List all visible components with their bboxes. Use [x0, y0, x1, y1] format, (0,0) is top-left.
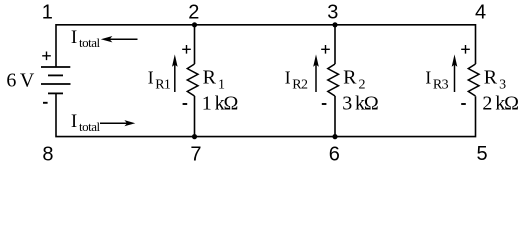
svg-text:8: 8 — [42, 143, 53, 165]
svg-text:3: 3 — [327, 2, 338, 24]
svg-text:I: I — [148, 68, 154, 88]
svg-text:7: 7 — [190, 144, 201, 166]
svg-text:1: 1 — [42, 2, 53, 24]
svg-text:I: I — [425, 68, 431, 88]
svg-text:I: I — [285, 68, 291, 88]
svg-text:1 kΩ: 1 kΩ — [202, 92, 238, 114]
svg-text:R: R — [484, 67, 498, 89]
svg-text:2: 2 — [188, 2, 199, 24]
svg-text:1: 1 — [218, 77, 225, 92]
svg-text:4: 4 — [475, 2, 486, 24]
svg-text:5: 5 — [477, 143, 488, 165]
svg-text:R2: R2 — [292, 77, 308, 92]
svg-text:R: R — [203, 67, 217, 89]
svg-text:I: I — [71, 27, 77, 48]
svg-text:R1: R1 — [155, 77, 171, 92]
svg-text:total: total — [79, 119, 100, 134]
svg-text:6: 6 — [329, 143, 340, 165]
svg-text:6 V: 6 V — [6, 69, 34, 91]
svg-text:R3: R3 — [433, 77, 449, 92]
svg-text:total: total — [79, 35, 100, 50]
svg-text:I: I — [71, 111, 77, 132]
svg-text:3: 3 — [499, 77, 506, 92]
svg-text:3 kΩ: 3 kΩ — [342, 92, 378, 114]
svg-text:R: R — [343, 67, 357, 89]
svg-text:2: 2 — [359, 77, 366, 92]
svg-text:2 kΩ: 2 kΩ — [482, 92, 518, 114]
